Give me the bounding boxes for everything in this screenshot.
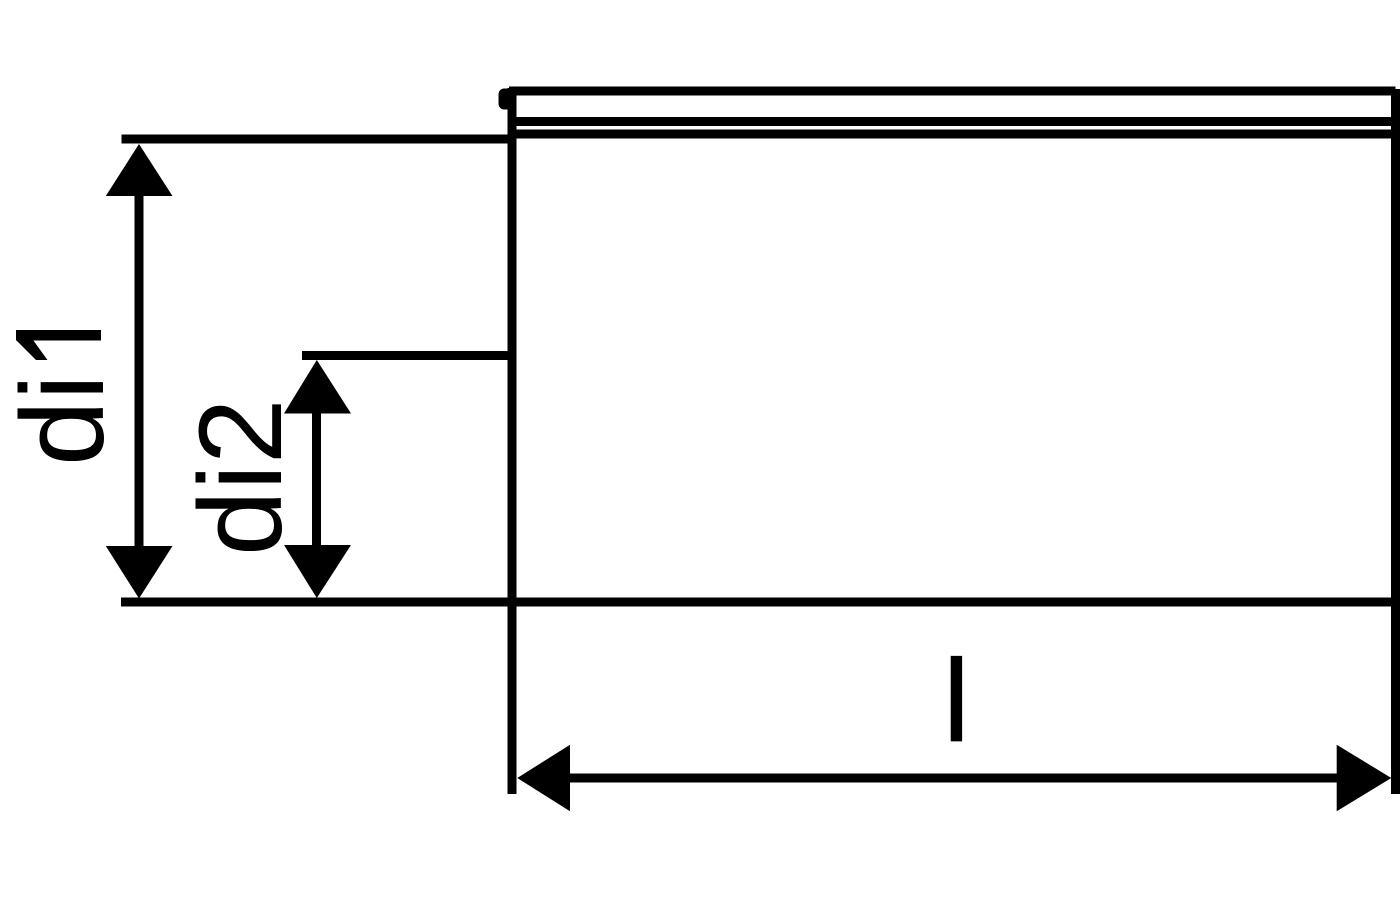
sleeve collar lower line — [508, 117, 1400, 126]
label di1 digit 1 flag — [16, 340, 48, 360]
arrowhead l left — [517, 745, 570, 812]
rolled bead at top-left — [499, 89, 514, 110]
extension line di1 top — [122, 135, 513, 144]
sleeve bottom line — [121, 598, 1400, 607]
arrowhead di1 up — [106, 144, 173, 196]
label di1 digit 1 stem — [16, 330, 101, 341]
arrowhead l right — [1337, 745, 1392, 812]
svg-text:di2: di2 — [175, 399, 307, 556]
sleeve outer top line — [509, 87, 1396, 96]
dimension line di1 — [135, 193, 144, 549]
sleeve right edge and extension line — [1391, 89, 1400, 794]
svg-text:di: di — [0, 374, 129, 466]
sleeve inner shoulder line — [508, 130, 1400, 139]
extension line di2 top — [302, 351, 512, 360]
svg-text:l: l — [944, 636, 970, 766]
dimension line l — [560, 774, 1345, 783]
arrowhead di2 down — [284, 545, 351, 598]
dimension line di2 — [312, 410, 321, 548]
arrowhead di1 down — [106, 546, 173, 599]
arrowhead di2 up — [284, 360, 351, 414]
sleeve left edge and extension line — [508, 88, 517, 794]
